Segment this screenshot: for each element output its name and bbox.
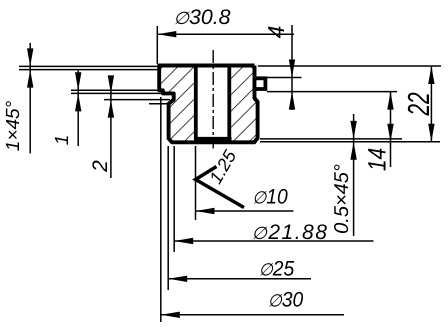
extension top face going right xyxy=(258,65,441,67)
svg-text:∅21.88: ∅21.88 xyxy=(252,221,329,244)
part outline xyxy=(159,66,257,143)
dim line dia30.8 xyxy=(157,33,294,35)
dim line 22 xyxy=(430,66,432,142)
arrow dia25 xyxy=(168,276,187,282)
arrow 0.5 upper xyxy=(350,121,356,139)
svg-text:2: 2 xyxy=(89,160,112,173)
extension bottom chamfer going right xyxy=(260,138,402,140)
extension dia25 helper xyxy=(160,97,162,322)
dim line 0.5x45 xyxy=(353,114,355,236)
dim line 1x45 xyxy=(29,43,31,153)
svg-text:14: 14 xyxy=(364,148,392,171)
extension dia21.88 xyxy=(173,146,175,252)
hatched right wall xyxy=(229,66,257,142)
dim line 1 xyxy=(77,71,79,147)
extension nub bottom going right xyxy=(267,91,397,93)
extension dia25 xyxy=(167,146,169,290)
svg-text:4: 4 xyxy=(263,26,289,39)
centerline xyxy=(212,50,214,149)
extension nub top going right xyxy=(267,77,302,79)
extension bottom face going right xyxy=(260,141,440,143)
dim line dia30 xyxy=(161,314,344,316)
arrow 22 lower xyxy=(428,124,434,142)
dim line 2 xyxy=(110,85,112,178)
svg-text:1: 1 xyxy=(52,135,73,146)
bore left edge xyxy=(194,66,198,139)
svg-text:∅25: ∅25 xyxy=(259,258,295,281)
right nub xyxy=(255,78,266,89)
svg-text:∅10: ∅10 xyxy=(252,186,288,209)
dim line dia10 xyxy=(196,210,294,212)
dim line dia21.88 xyxy=(174,240,373,242)
dim line 14 xyxy=(390,92,392,167)
extension step top going left xyxy=(71,89,158,91)
arrow dia10 xyxy=(196,208,215,214)
arrow 2 lower xyxy=(108,100,114,118)
bore bottom line xyxy=(194,137,232,141)
svg-text:1×45°: 1×45° xyxy=(3,100,24,151)
extension line flange top-left going up xyxy=(156,26,158,64)
svg-text:1.25: 1.25 xyxy=(205,146,240,187)
arrow 1 upper xyxy=(75,72,81,90)
arrow 22 upper xyxy=(428,66,434,84)
dim line 4 xyxy=(291,25,293,110)
dim line dia25 xyxy=(168,278,311,280)
extension dia10 xyxy=(195,146,197,220)
extension chamfer going left xyxy=(19,69,159,71)
extension top face going left xyxy=(19,65,158,67)
arrow 1x45 lower xyxy=(27,70,33,88)
arrow dia21.88 xyxy=(174,238,193,244)
top right chamfer xyxy=(251,66,255,70)
svg-text:22: 22 xyxy=(403,92,436,117)
arrow 1x45 upper xyxy=(27,48,33,66)
arrow 2 upper xyxy=(108,75,114,93)
arrow 14 lower xyxy=(387,124,393,142)
extension groove bottom going left xyxy=(104,99,170,101)
arrow 4 upper xyxy=(289,60,295,78)
arrow dia30.8 xyxy=(157,31,176,37)
arrow 14 upper xyxy=(387,92,393,110)
svg-text:∅30.8: ∅30.8 xyxy=(174,6,231,29)
extension step bottom going left xyxy=(71,92,161,94)
bore right edge xyxy=(227,66,231,139)
svg-text:∅30: ∅30 xyxy=(268,289,304,312)
top left chamfer xyxy=(159,66,163,70)
arrow dia30 xyxy=(161,312,180,318)
extension body top going left xyxy=(149,103,168,105)
arrow 4 lower xyxy=(289,92,295,110)
hatched left wall xyxy=(159,66,196,141)
svg-text:0.5×45°: 0.5×45° xyxy=(331,164,353,234)
leader 1.25 wedge xyxy=(196,167,245,208)
arrow 1 lower xyxy=(75,93,81,111)
arrow 0.5 lower xyxy=(350,142,356,160)
